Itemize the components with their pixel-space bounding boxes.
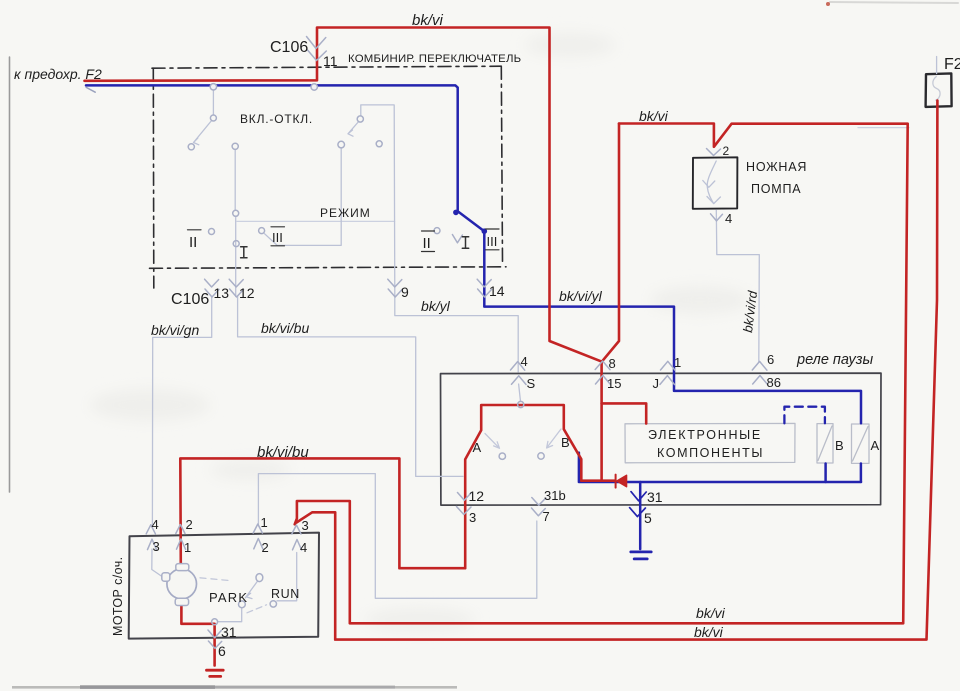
svg-text:В: В (561, 435, 570, 450)
pivot circle switch1 (210, 115, 216, 121)
svg-text:13: 13 (214, 285, 230, 301)
wire pump pin4 to relay pin6 bk/vi/rd (716, 210, 759, 362)
electronic components box (625, 423, 795, 462)
svg-text:ВКЛ.-ОТКЛ.: ВКЛ.-ОТКЛ. (240, 112, 313, 126)
wire C106 pin12 down right (238, 297, 463, 477)
scan artifact red dot top right (826, 2, 830, 6)
svg-text:6: 6 (767, 352, 774, 367)
pin 12 arrows (229, 279, 243, 297)
svg-text:4: 4 (152, 517, 159, 532)
ground symbol blue (631, 552, 651, 559)
run contact circle (270, 601, 276, 607)
svg-text:31: 31 (647, 489, 663, 505)
numeral II right (422, 231, 435, 252)
fuse F2 symbol (933, 77, 940, 101)
svg-text:bk/vi/bu: bk/vi/bu (261, 320, 309, 336)
numeral III left (271, 227, 285, 246)
svg-text:II: II (189, 234, 197, 251)
svg-text:bk/vi: bk/vi (412, 12, 444, 29)
svg-text:F2: F2 (944, 56, 960, 73)
relay pin 6-86 arrows (752, 361, 767, 384)
contact circle position II right (434, 228, 440, 234)
wire red bk/vi feed from fuse to switch pin 11 and relay pin 8 (85, 28, 602, 481)
foot pump box (693, 157, 738, 209)
wire relay S stem (519, 384, 521, 401)
svg-text:РЕЖИМ: РЕЖИМ (320, 206, 371, 220)
wire node row to pin9 link (237, 220, 395, 222)
svg-text:III: III (272, 230, 283, 245)
contact circle position II left (209, 229, 215, 235)
svg-text:bk/vi: bk/vi (694, 624, 724, 640)
svg-text:МОТОР с/оч.: МОТОР с/оч. (111, 556, 125, 636)
wire mode switch top link (361, 105, 394, 116)
numeral I left (241, 247, 247, 258)
junction dot blue at mode switch (453, 210, 459, 216)
wire C106 pin13 to motor pin4 (152, 297, 211, 525)
relay pin 8-15 arrows (595, 361, 610, 384)
relay contact circle A (499, 453, 505, 459)
wire coil B bottom stub (824, 464, 827, 483)
svg-text:4: 4 (521, 354, 528, 369)
relay pin 4-S arrows (511, 362, 527, 385)
svg-text:14: 14 (489, 283, 505, 299)
wire bk/yl pin9 to relay pin4 (395, 297, 518, 373)
combination switch dash-dot box C106 (150, 66, 507, 288)
svg-text:КОМБИНИР. ПЕРЕКЛЮЧАТЕЛЬ: КОМБИНИР. ПЕРЕКЛЮЧАТЕЛЬ (348, 53, 521, 65)
svg-text:2: 2 (186, 517, 193, 532)
svg-text:4: 4 (725, 211, 732, 226)
relay pin 31-5 arrows blue (630, 492, 647, 517)
relay pin 12-3 arrows (457, 493, 472, 515)
pin 14 arrows (477, 279, 491, 297)
wire mode switch lever (348, 122, 358, 136)
motor brush tab top (176, 564, 189, 571)
wire red bk/vi/bu motor pin1 to relay contact A and B (180, 405, 615, 568)
wire coil A bottom stub (860, 464, 863, 482)
park switch lower circle (239, 601, 246, 608)
svg-text:ПОМПА: ПОМПА (751, 182, 801, 196)
wire red branch pin15 to electronic components (602, 403, 647, 423)
wire switch1 right contact to pin 12 (234, 150, 237, 297)
svg-text:C106: C106 (171, 291, 209, 308)
fuse F2 box (926, 73, 952, 107)
wire switch1 lever (194, 121, 212, 145)
svg-text:ЭЛЕКТРОННЫЕ: ЭЛЕКТРОННЫЕ (648, 428, 762, 442)
svg-text:2: 2 (262, 540, 269, 555)
motor armature circle (167, 569, 197, 599)
svg-text:bk/yl: bk/yl (421, 298, 451, 314)
motor pin 1-2 arrows (253, 524, 263, 549)
svg-text:RUN: RUN (271, 587, 300, 601)
motor brush tab bottom (175, 598, 188, 605)
pin 9 arrows (388, 279, 402, 297)
motor brush tab left (162, 573, 170, 581)
terminal circle switch1 top on bus (210, 84, 216, 90)
pump pin 2 arrow (707, 149, 721, 156)
svg-text:реле паузы: реле паузы (796, 352, 873, 368)
pivot circle mode switch (357, 116, 363, 122)
wire motor linkage dashes (200, 578, 229, 581)
wiper motor box (129, 533, 319, 639)
svg-text:12: 12 (469, 488, 485, 504)
motor pin 2-1 arrows (176, 525, 186, 550)
svg-text:КОМПОНЕНТЫ: КОМПОНЕНТЫ (657, 446, 764, 460)
svg-text:12: 12 (239, 285, 255, 301)
svg-text:bk/vi: bk/vi (696, 605, 726, 621)
wire relay wiper A (485, 434, 500, 449)
contact circle switch1 left (188, 144, 194, 150)
contact circle switch1 right (232, 143, 238, 149)
motor pin 4-3 arrows (146, 525, 156, 550)
svg-text:1: 1 (674, 355, 681, 370)
wire blue feed from fuse F2 through switch to relay pin J and coil A (86, 85, 861, 423)
svg-text:к предохр. F2: к предохр. F2 (14, 66, 102, 82)
blue dashed coil B link box (784, 407, 825, 424)
relay contact circle B (538, 453, 544, 459)
numeral I right (462, 237, 468, 249)
numeral II left (188, 230, 202, 251)
wire red fuse F2 to bottom rail to motor pin 3 (297, 101, 938, 640)
wire motor pin3 into left brush (152, 549, 164, 578)
svg-text:5: 5 (644, 510, 652, 526)
wire blue from contact B to coil bus (579, 453, 861, 482)
wire pump internal plunger (707, 161, 716, 204)
motor pin 3-4 arrows (292, 525, 302, 550)
park switch upper circle (256, 574, 263, 582)
wire pin 9 riser (393, 105, 396, 297)
wire blue ground branch pin 31-5 (639, 482, 642, 549)
svg-text:9: 9 (401, 284, 409, 300)
svg-text:3: 3 (469, 510, 476, 525)
relay S node circle (518, 401, 524, 407)
svg-text:2: 2 (723, 144, 730, 158)
svg-text:B: B (835, 438, 844, 453)
pump pin 4 arrow (711, 214, 723, 221)
node circle I-row left (233, 210, 239, 216)
svg-text:C106: C106 (270, 39, 308, 56)
svg-text:86: 86 (767, 375, 781, 390)
svg-text:4: 4 (300, 540, 307, 555)
motor pin 31 arrows (208, 630, 222, 648)
svg-text:bk/vi/gn: bk/vi/gn (151, 322, 199, 338)
contact circle mode right (376, 141, 382, 147)
wire relay wiper B (547, 429, 561, 448)
svg-text:1: 1 (184, 540, 191, 555)
wire fuse F2 top lead (936, 57, 938, 74)
scan artifact bottom band (12, 685, 457, 689)
numeral III right (486, 229, 500, 250)
svg-text:PARK: PARK (209, 590, 248, 605)
relay pin J-1 arrows (660, 361, 675, 384)
pin I right arrow (452, 235, 462, 243)
svg-text:bk/vi: bk/vi (639, 108, 669, 124)
svg-text:8: 8 (609, 356, 616, 371)
svg-text:3: 3 (153, 539, 160, 554)
svg-text:S: S (527, 376, 536, 391)
svg-text:J: J (653, 376, 660, 391)
svg-text:31: 31 (221, 624, 237, 640)
wire motor pin4 stub to RUN (277, 553, 297, 601)
svg-text:1: 1 (261, 515, 268, 530)
contact circle mode common (338, 141, 345, 148)
wire pump plunger arrows (703, 181, 721, 204)
svg-text:bk/vi/yl: bk/vi/yl (559, 288, 603, 304)
wire park lever (245, 581, 257, 599)
node circle position I (233, 241, 239, 247)
wire motor pin1 run loop to relay pin7 (258, 474, 536, 599)
svg-text:15: 15 (607, 376, 621, 391)
scan artifact top right streak (830, 2, 958, 3)
wire pencil trace under bk/vi near corner (858, 127, 909, 129)
svg-text:III: III (487, 234, 498, 249)
wire red motor brush to ground node 31 (181, 606, 214, 666)
svg-text:НОЖНАЯ: НОЖНАЯ (746, 160, 807, 174)
relay coil A box (852, 424, 870, 463)
relay coil B box (817, 424, 833, 463)
svg-text:11: 11 (323, 53, 338, 69)
svg-text:bk/vi/bu: bk/vi/bu (257, 444, 309, 461)
pause relay box (441, 373, 882, 505)
pin 11 arrows (307, 37, 327, 61)
svg-text:7: 7 (543, 509, 550, 524)
wire red pump top run to right and to motor pin 3 (295, 124, 908, 624)
svg-text:6: 6 (218, 643, 226, 659)
svg-text:A: A (871, 438, 880, 453)
contact circle position III left (259, 228, 265, 234)
svg-text:31b: 31b (544, 488, 566, 503)
svg-text:II: II (423, 235, 431, 252)
wire red pump bk/vi to pin 8 (602, 124, 619, 362)
ground symbol red at motor (207, 670, 224, 676)
svg-text:А: А (473, 440, 482, 455)
scan artifact left edge (9, 57, 11, 492)
diode red near pin 31 (615, 475, 617, 488)
node 31 circle (212, 619, 218, 625)
svg-text:3: 3 (302, 518, 309, 533)
wire park contact to node 31 (218, 608, 242, 622)
pin 13 arrows (205, 279, 219, 297)
wire switch1 stem from pin11 bus (212, 90, 214, 115)
terminal circle mode switch on bus (311, 84, 317, 90)
relay pin 31b-7 arrows (532, 498, 546, 516)
wire blue arrow at left end (86, 87, 95, 92)
wire mode common down (265, 148, 342, 245)
